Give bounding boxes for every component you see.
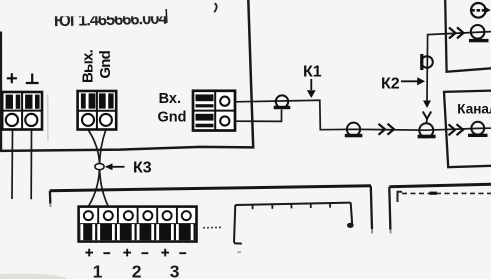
svg-text:2: 2 bbox=[132, 262, 142, 279]
svg-text:К1: К1 bbox=[303, 64, 322, 81]
svg-text:1: 1 bbox=[93, 262, 103, 279]
svg-text:Gnd: Gnd bbox=[97, 50, 114, 78]
svg-text:Канал: Канал bbox=[457, 102, 491, 117]
svg-text:Вых.: Вых. bbox=[80, 49, 97, 83]
svg-text:К3: К3 bbox=[133, 159, 152, 176]
svg-text:Gnd: Gnd bbox=[158, 110, 187, 126]
svg-text:Вх.: Вх. bbox=[159, 91, 181, 107]
svg-text:3: 3 bbox=[170, 262, 180, 279]
svg-text:К2: К2 bbox=[381, 76, 400, 93]
